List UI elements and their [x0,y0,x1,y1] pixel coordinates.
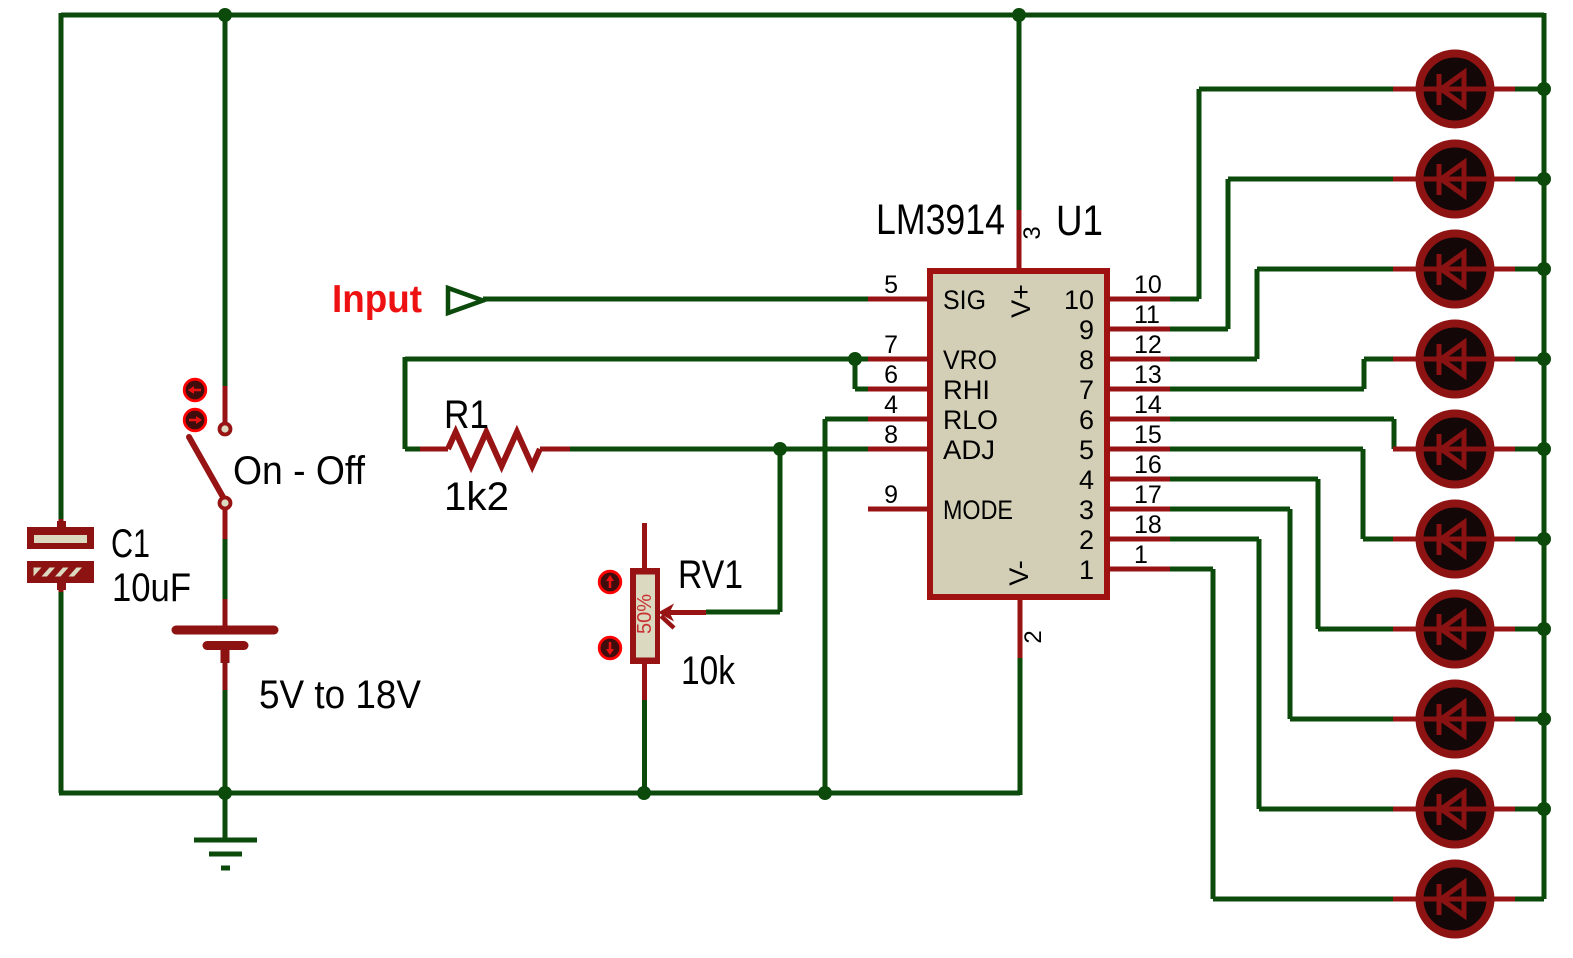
wire switch top pin [223,386,228,422]
node junction VRO-RHI [848,352,862,366]
capacitor C1 bottom plate [27,561,94,583]
svg-text:50%: 50% [634,594,656,634]
wire Vminus to bottom rail [1018,658,1023,795]
switch SW1 button down [184,409,206,431]
svg-text:10: 10 [1134,271,1162,299]
label U1 left pin number 7 [884,331,898,359]
wire U1 output pin 10 stub [1107,297,1170,302]
LED D7 [1393,594,1515,665]
label U1 output pin number 13 [1134,361,1162,389]
switch SW1 top contact [220,424,231,435]
label pin number 3 [1019,226,1046,239]
node junction ADJ-wiper [773,442,787,456]
node junction right rail LED D9 [1537,802,1551,816]
wire U1 left pin 6 stub [868,387,930,392]
wire switch to battery [223,539,228,599]
wire U1 output to LED D9 [1170,539,1395,809]
LED D4 [1393,324,1515,395]
svg-text:13: 13 [1134,361,1162,389]
wire switch top [223,15,228,386]
wire LED D1 to right rail [1515,87,1544,92]
wire U1 left pin 9 stub [868,507,930,512]
label U1 part LM3914 [876,196,1005,244]
svg-text:15: 15 [1134,421,1162,449]
label pin number 2 [1020,630,1047,643]
svg-text:RLO: RLO [943,405,998,435]
svg-text:1: 1 [1079,555,1094,585]
svg-text:10: 10 [1064,285,1094,315]
label battery value 5V to 18V [259,673,421,717]
wire wiper horizontal [706,610,780,615]
capacitor C1 top plate [27,527,94,549]
wire left rail upper [59,13,64,549]
label U1 output pin number 14 [1134,391,1162,419]
label U1 inside pin number 3 [1079,495,1094,525]
svg-text:1k2: 1k2 [444,475,509,519]
svg-text:9: 9 [884,481,898,509]
svg-text:10uF: 10uF [112,566,191,610]
node junction right rail LED D1 [1537,82,1551,96]
op-amp U1 LM3914 body [930,271,1107,597]
wire U1 output pin 15 stub [1107,447,1170,452]
node junction bottom-RLO [818,786,832,800]
label U1 output pin number 10 [1134,271,1162,299]
wire U1 output pin 18 stub [1107,537,1170,542]
label C1 value [112,566,191,610]
wire U1 output pin 17 stub [1107,507,1170,512]
ground symbol [194,840,257,868]
svg-text:12: 12 [1134,331,1162,359]
wire right LED rail [1542,13,1547,899]
node junction top-switch [218,8,232,22]
label U1 output pin number 18 [1134,511,1162,539]
label RV1 value 10k [681,649,736,693]
label U1 output pin number 12 [1134,331,1162,359]
wire RHI jog [855,359,868,389]
wire C1 bottom lead [57,583,66,592]
wire U1 output to LED D7 [1170,479,1395,629]
wire RLO vertical [823,419,828,793]
LED D10 [1393,864,1515,935]
potentiometer RV1 body [630,568,660,664]
svg-text:2: 2 [1020,630,1047,643]
wire U1 output to LED D10 [1170,569,1395,899]
wire LED D5 to right rail [1515,447,1544,452]
wire Vminus pin 2 [1018,600,1023,658]
svg-text:1: 1 [1134,541,1148,569]
label U1 V+ [1006,284,1036,318]
wire U1 output to LED D2 [1170,179,1395,329]
svg-text:On - Off: On - Off [233,449,366,493]
label U1 inside pin number 7 [1079,375,1094,405]
label U1 inside pin number 6 [1079,405,1094,435]
wire C1 top lead [57,519,66,528]
svg-text:VRO: VRO [943,345,997,375]
node junction right rail LED D3 [1537,262,1551,276]
label U1 pin name ADJ [943,435,995,465]
wire Vplus pin 3 [1017,210,1022,268]
wire RV1 to bottom rail [642,700,647,793]
wire U1 output pin 11 stub [1107,327,1170,332]
label C1 ref [111,522,150,566]
svg-text:8: 8 [1079,345,1094,375]
wire LED D4 to right rail [1515,357,1544,362]
svg-text:11: 11 [1134,301,1160,329]
label U1 inside pin number 1 [1079,555,1094,585]
wire battery bottom pin [221,650,230,690]
label U1 inside pin number 4 [1079,465,1094,495]
label U1 left pin number 6 [884,361,898,389]
potentiometer RV1 button up [599,571,621,593]
svg-text:17: 17 [1134,481,1162,509]
wire U1 output to LED D1 [1170,89,1395,299]
svg-text:7: 7 [1079,375,1094,405]
wire ground stub [223,793,228,840]
label RV1 50% [634,594,656,634]
label R1 value 1k2 [444,475,509,519]
svg-text:14: 14 [1134,391,1162,419]
wire U1 output pin 12 stub [1107,357,1170,362]
wire LED D2 to right rail [1515,177,1544,182]
label U1 left pin number 8 [884,421,898,449]
svg-text:5: 5 [1079,435,1094,465]
svg-text:Input: Input [332,278,422,321]
svg-text:RHI: RHI [943,375,990,405]
wire U1 output pin 13 stub [1107,387,1170,392]
node junction bottom-battery [218,786,232,800]
label U1 left pin number 5 [884,271,898,299]
resistor R1 body [448,432,540,466]
label switch On - Off [233,449,366,493]
label U1 pin name SIG [943,285,986,315]
svg-text:MODE: MODE [943,495,1013,525]
wire U1 left pin 4 stub [868,417,930,422]
svg-text:8: 8 [884,421,898,449]
label U1 inside pin number 8 [1079,345,1094,375]
svg-text:16: 16 [1134,451,1162,479]
wire RLO horizontal [825,417,868,422]
wire U1 left pin 8 stub [868,447,930,452]
LED D6 [1393,504,1515,575]
label U1 inside pin number 5 [1079,435,1094,465]
wire U1 output to LED D6 [1170,449,1395,539]
svg-text:ADJ: ADJ [943,435,995,465]
svg-text:5: 5 [884,271,898,299]
label Input [332,278,422,321]
svg-text:4: 4 [884,391,898,419]
wire input to SIG [483,297,868,302]
label U1 output pin number 17 [1134,481,1162,509]
svg-text:4: 4 [1079,465,1094,495]
label U1 left pin number 9 [884,481,898,509]
node junction right rail LED D7 [1537,622,1551,636]
switch SW1 bottom contact [220,498,231,509]
LED D5 [1393,414,1515,485]
node junction right rail LED D4 [1537,352,1551,366]
svg-text:3: 3 [1019,226,1046,239]
wire LED D9 to right rail [1515,807,1544,812]
wire R1 left lead [405,447,448,452]
label U1 V- [1004,560,1034,586]
wire VRO-R1 vertical [403,357,408,449]
LED D8 [1393,684,1515,755]
svg-text:LM3914: LM3914 [876,196,1005,244]
node junction top-Vplus [1012,8,1026,22]
label U1 inside pin number 9 [1079,315,1094,345]
wire LED D8 to right rail [1515,717,1544,722]
LED D9 [1393,774,1515,845]
label U1 pin name RHI [943,375,990,405]
svg-text:2: 2 [1079,525,1094,555]
label U1 output pin number 1 [1134,541,1148,569]
label U1 inside pin number 2 [1079,525,1094,555]
wire U1 output to LED D5 [1170,419,1395,449]
svg-text:V-: V- [1004,560,1034,586]
wire switch bottom pin [223,509,228,539]
wire U1 output to LED D4 [1170,359,1395,389]
wire bottom rail [59,791,1020,796]
LED D2 [1393,144,1515,215]
battery BAT1 positive plate [176,626,274,635]
label R1 ref [444,393,489,437]
label U1 left pin number 4 [884,391,898,419]
label U1 pin name MODE [943,495,1013,525]
wire U1 left pin 5 stub [868,297,930,302]
label U1 output pin number 11 [1134,301,1160,329]
wire LED D3 to right rail [1515,267,1544,272]
wire R1 to ADJ [570,447,868,452]
wire LED D10 to right rail [1515,897,1544,902]
label U1 ref [1056,197,1103,245]
label RV1 ref [678,553,743,597]
svg-text:18: 18 [1134,511,1162,539]
wire LED D7 to right rail [1515,627,1544,632]
svg-text:6: 6 [1079,405,1094,435]
svg-text:5V to 18V: 5V to 18V [259,673,421,717]
wire U1 output pin 14 stub [1107,417,1170,422]
svg-text:C1: C1 [111,522,150,566]
wire R1 right lead [540,447,570,452]
LED D1 [1393,54,1515,125]
svg-text:10k: 10k [681,649,736,693]
wire battery to bottom rail [223,690,228,793]
potentiometer RV1 wiper arrow [658,604,706,629]
svg-text:U1: U1 [1056,197,1103,245]
node junction right rail LED D2 [1537,172,1551,186]
node junction right rail LED D8 [1537,712,1551,726]
svg-text:SIG: SIG [943,285,986,315]
potentiometer RV1 button down [599,637,621,659]
svg-text:9: 9 [1079,315,1094,345]
wire LED D6 to right rail [1515,537,1544,542]
label U1 output pin number 16 [1134,451,1162,479]
label U1 pin name VRO [943,345,997,375]
label U1 inside pin number 10 [1064,285,1094,315]
node junction right rail LED D5 [1537,442,1551,456]
label U1 pin name RLO [943,405,998,435]
switch SW1 button up [184,379,206,401]
wire battery top pin [223,599,228,626]
svg-text:7: 7 [884,331,898,359]
wire U1 output to LED D3 [1170,269,1395,359]
wire wiper riser [778,449,783,612]
wire Vplus vertical [1017,15,1022,210]
svg-text:RV1: RV1 [678,553,743,597]
wire RV1 bottom pin [642,664,647,700]
wire left rail lower [59,561,64,793]
wire U1 output pin 1 stub [1107,567,1170,572]
svg-text:V+: V+ [1006,284,1036,318]
wire U1 output to LED D8 [1170,509,1395,719]
node junction right rail LED D6 [1537,532,1551,546]
switch SW1 lever [189,437,223,497]
svg-text:3: 3 [1079,495,1094,525]
svg-text:6: 6 [884,361,898,389]
label U1 output pin number 15 [1134,421,1162,449]
wire VRO horizontal [405,357,868,362]
wire RV1 top pin [642,523,647,568]
svg-text:R1: R1 [444,393,489,437]
terminal Input arrow [448,288,483,313]
LED D3 [1393,234,1515,305]
node junction bottom-RV1 [637,786,651,800]
wire U1 output pin 16 stub [1107,477,1170,482]
wire U1 left pin 7 stub [868,357,930,362]
battery BAT1 negative plate [207,641,244,650]
wire top rail [61,13,1544,18]
